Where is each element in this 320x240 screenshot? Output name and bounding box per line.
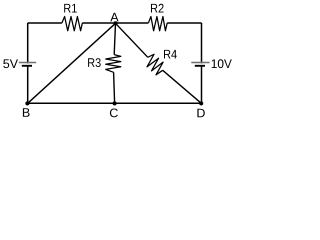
wire R4 to D xyxy=(163,70,202,103)
wire top-left segment xyxy=(28,22,62,24)
wire left lower xyxy=(27,66,29,104)
wire top-right segment xyxy=(167,22,201,24)
node A xyxy=(110,13,118,26)
wire A to B diagonal xyxy=(28,23,116,103)
wire right lower xyxy=(201,66,203,104)
resistor R2 xyxy=(148,4,167,31)
wire right upper xyxy=(201,23,203,63)
resistor R1 xyxy=(62,4,83,31)
wire top-middle segment xyxy=(82,22,148,24)
wire R3 to C xyxy=(114,72,115,103)
battery 5V xyxy=(3,59,36,68)
battery 10V xyxy=(191,59,232,68)
node D xyxy=(197,101,204,117)
node B xyxy=(23,101,30,116)
wire A to R3 xyxy=(114,23,115,54)
wire left upper xyxy=(27,23,29,63)
node C xyxy=(110,101,118,117)
wire A to R4 xyxy=(116,23,148,57)
resistor R4 xyxy=(147,50,177,75)
wire bottom xyxy=(28,102,202,104)
resistor R3 xyxy=(88,55,121,73)
